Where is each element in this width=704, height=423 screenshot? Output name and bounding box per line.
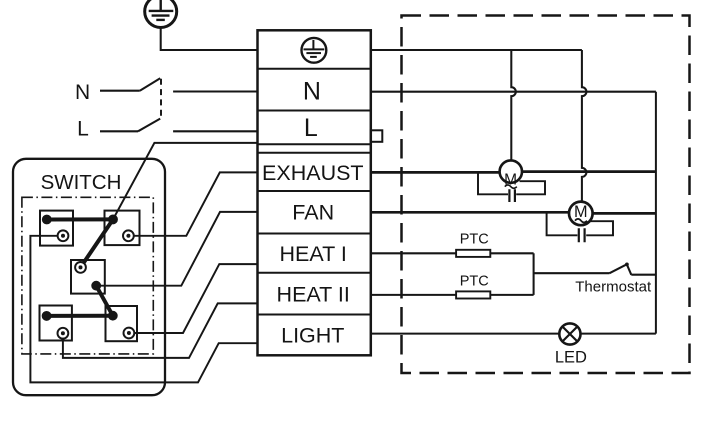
capacitor C1 plates: [509, 189, 515, 202]
terminal B2: [123, 230, 134, 241]
svg-text:LED: LED: [555, 348, 587, 366]
PTC R1: [456, 250, 490, 257]
wire A3 to FAN: [96, 212, 257, 286]
svg-text:LIGHT: LIGHT: [281, 323, 344, 347]
wire thermostat to N bus: [631, 274, 656, 276]
wire LIGHT to LED: [371, 333, 560, 335]
thermostat blade: [610, 264, 627, 273]
terminal A1: [43, 216, 51, 224]
terminal A4: [43, 312, 51, 320]
wire PTC R2 to common: [490, 294, 533, 296]
wire B5 to HEAT I: [129, 264, 258, 333]
appliance enclosure (dashed): [402, 16, 690, 374]
terminal B1: [58, 230, 69, 241]
svg-text:Thermostat: Thermostat: [575, 278, 652, 295]
wire earth drop to motor M1 (hops N wire): [511, 50, 516, 161]
wire L to terminal block: [173, 130, 257, 132]
wire PTC common to thermostat: [534, 272, 610, 274]
wire B1 to LIGHT: [30, 236, 257, 383]
LED lamp: [559, 323, 580, 344]
protective earth symbol PE: [145, 0, 177, 28]
svg-text:PTC: PTC: [460, 231, 489, 247]
switch S1 mechanical link: [160, 79, 162, 118]
wire HEAT I to PTC R1: [371, 252, 456, 254]
PTC R2: [456, 291, 490, 298]
wire motor M1 to N bus: [522, 170, 656, 173]
terminal block TB1: [258, 30, 371, 355]
svg-text:PTC: PTC: [460, 274, 489, 290]
wire PE to terminal block earth row: [161, 28, 258, 50]
switch contact pad K4 (bottom-left): [40, 306, 72, 341]
wire B2 to EXHAUST: [128, 172, 257, 235]
wire LED to N bus: [580, 333, 656, 335]
capacitor C2 loop: [547, 213, 613, 235]
svg-text:EXHAUST: EXHAUST: [262, 161, 364, 185]
bridge A1-A2: [47, 217, 113, 221]
wire motor M2 to N bus: [593, 212, 656, 215]
wire EXHAUST to motor M1: [371, 171, 500, 174]
svg-text:M: M: [574, 203, 588, 221]
terminal B3: [75, 262, 86, 273]
svg-text:SWITCH: SWITCH: [41, 171, 122, 194]
bridge A2-B3: [81, 219, 114, 267]
motor M1: [500, 160, 522, 188]
wire earth row to motors: [371, 49, 582, 51]
switch contact pad K2 (top-right): [105, 211, 140, 246]
terminal B5: [123, 328, 134, 339]
motor M2: [569, 202, 593, 226]
svg-text:N: N: [303, 78, 321, 106]
svg-text:L: L: [77, 118, 89, 141]
wire PTC common vertical: [533, 253, 535, 295]
switch contact pad K3 (middle): [71, 260, 105, 294]
wire N row distribution: [371, 91, 656, 93]
wire N feed: [100, 90, 140, 92]
wire FAN to motor M2: [371, 211, 570, 214]
switch contact pad K1 (top-left): [40, 211, 73, 246]
svg-text:HEAT I: HEAT I: [280, 242, 347, 266]
bridge A4-A5: [47, 314, 113, 318]
capacitor C1 loop: [478, 172, 545, 194]
thermostat contact: [625, 263, 631, 275]
terminal B4: [58, 328, 69, 339]
terminal A3: [92, 282, 100, 290]
wire HEAT II to PTC R2: [371, 294, 456, 296]
wire L feed: [100, 130, 138, 132]
terminal A5: [109, 312, 117, 320]
wire PTC R1 to common: [490, 252, 533, 254]
wire B4 to HEAT II: [63, 303, 258, 358]
terminal A2: [109, 216, 117, 224]
switch S1 pole N blade: [140, 78, 160, 91]
terminal block tab: [371, 130, 383, 142]
switch contact pad K5 (bottom-right): [106, 306, 138, 341]
switch contact block boundary (dash-dot): [22, 197, 153, 354]
svg-text:HEAT II: HEAT II: [277, 282, 350, 306]
svg-text:N: N: [75, 81, 90, 104]
capacitor C2 plates: [579, 228, 585, 242]
svg-text:FAN: FAN: [292, 201, 334, 225]
switch S1 pole L blade: [138, 119, 160, 132]
wire N to terminal block: [173, 90, 257, 92]
wire earth drop to motor M2 (hops N and exhaust wires): [582, 50, 587, 202]
wire switch common to L row: [113, 143, 258, 220]
wire N bus vertical: [655, 92, 657, 334]
earth terminal symbol in block: [302, 38, 327, 63]
svg-text:L: L: [304, 114, 318, 142]
bridge A3-A5: [96, 286, 113, 316]
switch assembly enclosure: [13, 159, 165, 395]
